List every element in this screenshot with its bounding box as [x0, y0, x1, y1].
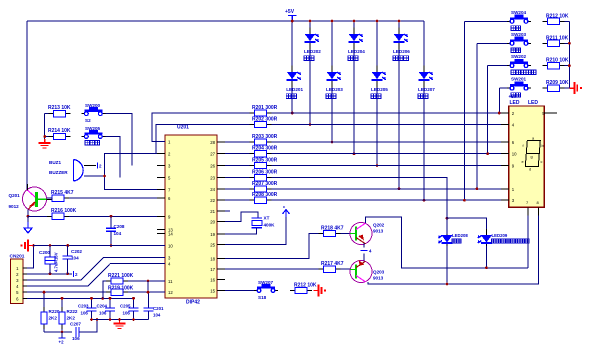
svg-text:LED207: LED207 [418, 87, 435, 92]
junction [147, 291, 150, 294]
svg-text:LED: LED [510, 100, 520, 106]
svg-text:R206 300R: R206 300R [252, 170, 278, 176]
resistor R221 100K [106, 273, 134, 284]
svg-text:22: 22 [210, 198, 215, 203]
svg-text:+2: +2 [59, 340, 65, 345]
crystal XT 400K [252, 216, 276, 228]
wire crosslink [447, 218, 486, 233]
resistor R219 100K [106, 286, 134, 296]
junction top bus x=292.2 [291, 20, 294, 23]
svg-text:R205 300R: R205 300R [252, 158, 278, 164]
junction buzzer node [103, 175, 106, 178]
LED LED209 [478, 229, 530, 251]
wire R202 to display pin4 [271, 124, 509, 126]
LED LED204 [348, 28, 365, 61]
junction R221 left col [101, 297, 104, 300]
svg-text:27: 27 [210, 152, 215, 157]
power +5V [285, 9, 297, 21]
wire R bottoms [44, 329, 72, 332]
wire R208 300R to display [271, 199, 509, 201]
svg-text:SW207: SW207 [258, 280, 274, 285]
wire SW204 to column [464, 20, 507, 22]
svg-text:R222: R222 [67, 309, 78, 314]
wire R201 to display pin2 [271, 112, 509, 114]
LED LED206 [393, 28, 410, 61]
vcc arrow node [225, 204, 290, 244]
LED LED208 [438, 229, 468, 251]
svg-text:U201: U201 [177, 125, 189, 131]
svg-text:R216 100K: R216 100K [51, 208, 77, 214]
junction [49, 272, 52, 275]
ground red left-switches [39, 139, 51, 148]
svg-text:R210 10K: R210 10K [546, 58, 569, 64]
wire R215 to pin6 [69, 197, 165, 199]
wire SW205 out [105, 137, 120, 178]
svg-text:104: 104 [153, 313, 161, 318]
wire R207 300R to display [271, 188, 509, 190]
resistor R222 2K2 [59, 307, 78, 329]
junction top bus x=354 [353, 20, 356, 23]
wire LED column x=292.2 [291, 21, 293, 113]
wire IC to R205 300R [225, 165, 249, 167]
junction top bus x=377 [376, 20, 379, 23]
switch SW205 [81, 126, 105, 145]
svg-text:26: 26 [210, 164, 215, 169]
svg-text:R208 300R: R208 300R [252, 192, 278, 198]
buzzer BUZ1 [49, 160, 102, 182]
wire Q202 emitter [363, 243, 365, 248]
transistor Q201 9012 [9, 184, 53, 211]
resistor R208 300R [249, 192, 277, 203]
svg-text:18: 18 [210, 257, 215, 262]
wire Q203 collector [368, 206, 539, 284]
ground red right [569, 82, 582, 94]
wire column SW201 [498, 88, 500, 113]
junction LED209 bottom [485, 266, 488, 269]
wire left border (Q201 base net) [26, 21, 28, 190]
wire pin15 to SW207 [225, 290, 254, 292]
junction C208 bottom [110, 244, 113, 247]
resistor R212 10K [543, 13, 569, 24]
wire R212 10K right [565, 20, 570, 22]
wire top +5V bus [27, 20, 424, 22]
wire Q202 collector [366, 217, 529, 268]
svg-text:2K2: 2K2 [67, 316, 76, 321]
wire display dig1 pin [527, 206, 529, 268]
svg-text:C208: C208 [114, 224, 125, 229]
junction top bus x=332 [331, 20, 334, 23]
svg-text:9013: 9013 [373, 229, 384, 234]
svg-text:R212 10K: R212 10K [294, 283, 317, 289]
svg-text:R204 300R: R204 300R [252, 146, 278, 152]
op-amp U201 (MCU DIP42) [157, 125, 225, 306]
capacitor C205 106 [120, 298, 139, 319]
svg-text:LED203: LED203 [326, 87, 343, 92]
wire link 11-12 [147, 281, 149, 292]
resistor R212b 10K [290, 283, 317, 294]
svg-text:d: d [529, 168, 531, 172]
wire column SW203 [476, 43, 478, 189]
wire R205 300R to display [271, 165, 509, 167]
resistor R216 100K [47, 208, 77, 220]
wire SW203 to column [477, 42, 507, 44]
svg-text:11: 11 [168, 279, 173, 284]
svg-text:LED206: LED206 [393, 49, 410, 54]
junction column bottom x=377 [376, 164, 379, 167]
junction [90, 318, 93, 321]
tick CN pin2 [74, 271, 79, 277]
wire Q203 emitter [363, 253, 365, 262]
svg-text:S2: S2 [85, 118, 91, 123]
junction [147, 280, 150, 283]
wire Q201 emitter [27, 210, 29, 217]
svg-text:10: 10 [168, 244, 173, 249]
svg-text:XT: XT [264, 216, 270, 221]
LED LED203 [326, 66, 343, 99]
svg-text:C203: C203 [78, 304, 89, 309]
switch SW200 [81, 103, 105, 123]
resistor R205 300R [249, 158, 277, 169]
wire CN pin4 diag [27, 264, 165, 287]
svg-text:e: e [522, 160, 524, 164]
wire LED column x=354 [353, 21, 355, 154]
junction [66, 244, 69, 247]
junction [132, 297, 135, 300]
svg-text:20: 20 [210, 220, 215, 225]
switch SW202 [507, 54, 536, 75]
svg-text:106: 106 [81, 311, 89, 316]
resistor R201 300R [249, 105, 277, 116]
transistor Q203 9013 [350, 260, 385, 283]
svg-text:R215 4K7: R215 4K7 [51, 190, 74, 196]
wire pin1 to R201 [152, 113, 249, 141]
capacitor C208 104 [106, 216, 125, 245]
wire R222 top [61, 298, 63, 307]
svg-text:+5V: +5V [509, 94, 517, 99]
capacitor C203 106 [78, 298, 97, 319]
svg-text:C200: C200 [39, 250, 50, 255]
wire C207 right [79, 320, 97, 333]
LED LED205 [371, 66, 388, 99]
wire pin20 to crystal top [225, 212, 258, 222]
wire R220 top [43, 292, 45, 307]
wire R213/R214 left join [45, 114, 49, 139]
wire LED column x=424 [423, 21, 425, 200]
wire R204 300R to display [271, 153, 509, 155]
LED LED207 [418, 66, 435, 99]
7-segment display LED [501, 94, 557, 215]
svg-text:SW203: SW203 [511, 32, 527, 37]
wire IC to R204 300R [225, 153, 249, 155]
wire R217 row [225, 268, 319, 270]
resistor R202 300R [249, 117, 277, 128]
svg-text:R203 300R: R203 300R [252, 134, 278, 140]
junction LED208 bottom [446, 283, 449, 286]
svg-text:C204: C204 [97, 304, 108, 309]
wire LED208 col upper [446, 178, 448, 234]
svg-text:104: 104 [114, 231, 122, 236]
junction top bus x=399 [398, 20, 401, 23]
wire R218 base route [225, 234, 319, 259]
junction [118, 318, 121, 321]
svg-text:R211 10K: R211 10K [546, 35, 569, 41]
wire CN pin3 diag [27, 258, 165, 280]
svg-text:C202: C202 [71, 249, 82, 254]
svg-text:9013: 9013 [373, 276, 384, 281]
wire R216 to pin9 [69, 215, 165, 217]
junction SW201 column end [498, 112, 501, 115]
svg-text:2K2: 2K2 [49, 316, 58, 321]
wire gnd rail [33, 245, 165, 247]
svg-text:400K: 400K [264, 223, 276, 228]
wire R209 10K right [565, 87, 570, 89]
svg-text:SW205: SW205 [85, 126, 101, 131]
svg-text:14: 14 [168, 232, 173, 237]
svg-text:R219 100K: R219 100K [108, 286, 134, 292]
resistor R210 10K [543, 58, 569, 69]
resistor R207 300R [249, 181, 277, 192]
svg-text:Q203: Q203 [373, 270, 385, 275]
svg-text:C207: C207 [70, 321, 81, 326]
transistor Q202 9013 [350, 223, 385, 245]
svg-text:23: 23 [210, 176, 215, 181]
wire SW201 to column [499, 87, 507, 89]
svg-text:LED205: LED205 [371, 87, 388, 92]
svg-text:R202 300R: R202 300R [252, 117, 278, 123]
resistor R215 4K7 [47, 190, 74, 201]
ground blue Q201 [24, 222, 32, 233]
junction [109, 297, 112, 300]
resistor R213 10K [48, 105, 71, 117]
svg-text:12: 12 [168, 290, 173, 295]
ground red caps [114, 320, 126, 329]
junction [568, 42, 571, 45]
switch SW204 [507, 10, 531, 31]
wire R218 to Q202 base [341, 233, 351, 235]
LED LED201 [286, 66, 303, 99]
wire crystal bottom to pin19 [225, 228, 257, 234]
junction [568, 64, 571, 67]
svg-text:10: 10 [512, 152, 517, 157]
svg-text:Q202: Q202 [373, 223, 385, 228]
svg-text:25: 25 [210, 242, 215, 247]
svg-text:24: 24 [210, 187, 215, 192]
svg-text:b: b [542, 144, 544, 148]
junction [61, 297, 64, 300]
junction SW203 column end [476, 187, 479, 190]
wire LED208 col lower [446, 246, 448, 284]
junction [43, 135, 46, 138]
junction [90, 297, 93, 300]
svg-text:R220: R220 [49, 309, 60, 314]
wire LED column x=332 [331, 21, 333, 142]
junction Q201 emitter [27, 215, 30, 218]
wire IC to R203 300R [225, 141, 249, 143]
tick power 4 [361, 248, 373, 253]
junction SW204 column end [463, 199, 466, 202]
wire R222 stub down [61, 332, 63, 338]
junction column bottom x=424 [423, 199, 426, 202]
wire IC to R207 300R [225, 188, 249, 190]
ground red SW207 [314, 285, 327, 297]
svg-text:R209 10K: R209 10K [546, 80, 569, 86]
capacitor C202 104 [63, 246, 83, 274]
ground red CN area [20, 240, 33, 252]
svg-text:15: 15 [210, 289, 215, 294]
svg-text:R221 100K: R221 100K [108, 273, 134, 279]
wire LED column x=310 [309, 21, 311, 125]
svg-text:4.7uF/16V: 4.7uF/16V [54, 252, 59, 272]
svg-text:R201 300R: R201 300R [252, 105, 278, 111]
svg-text:R218 4K7: R218 4K7 [321, 226, 344, 232]
wire R206 row to LED208 col [271, 178, 447, 284]
svg-text:LED: LED [528, 100, 538, 106]
wire emitter node [28, 216, 47, 222]
capacitor C207 106 [70, 321, 81, 341]
wire buzzer out to pin7 [84, 176, 165, 189]
junction [132, 318, 135, 321]
junction [49, 244, 52, 247]
wire R210 10K right [565, 65, 570, 67]
wire LED column x=377 [376, 21, 378, 166]
svg-text:R217 4K7: R217 4K7 [321, 261, 344, 267]
svg-text:17: 17 [210, 267, 215, 272]
wire R211 10K right [565, 42, 570, 44]
resistor R204 300R [249, 146, 277, 157]
tick bottom [59, 338, 66, 345]
wire CN pin5 row (pin12 net) [27, 291, 165, 293]
svg-text:C201: C201 [153, 306, 164, 311]
svg-text:104: 104 [71, 256, 79, 261]
capacitor C200 4u7 [39, 246, 59, 274]
resistor R211 10K [543, 35, 569, 46]
svg-text:SW200: SW200 [85, 103, 101, 108]
wire R203 300R to display [271, 141, 509, 143]
resistor R220 2K2 [41, 307, 60, 329]
svg-text:+5V: +5V [285, 9, 295, 15]
svg-text:R213 10K: R213 10K [48, 105, 71, 111]
svg-text:16: 16 [210, 278, 215, 283]
junction LED crosslink [446, 217, 449, 220]
svg-text:R212 10K: R212 10K [546, 13, 569, 19]
svg-text:21: 21 [210, 209, 215, 214]
junction C208 top [110, 215, 113, 218]
svg-text:C205: C205 [120, 304, 131, 309]
junction column bottom x=332 [331, 141, 334, 144]
resistor R209 10K [543, 80, 569, 91]
junction column bottom x=354 [353, 152, 356, 155]
wire LED column x=399 [398, 21, 400, 189]
svg-text:CN201: CN201 [10, 254, 25, 260]
wire caps bottom rail [92, 319, 149, 321]
svg-text:SW201: SW201 [511, 77, 527, 82]
junction [96, 318, 99, 321]
svg-text:106: 106 [72, 336, 80, 341]
svg-text:R214 10K: R214 10K [48, 128, 71, 134]
switch SW207 [254, 280, 278, 300]
wire Q201 coll to R215 [47, 198, 52, 199]
junction column bottom x=292.2 [291, 112, 294, 115]
junction [66, 272, 69, 275]
svg-text:DIP42: DIP42 [186, 300, 200, 306]
svg-text:28: 28 [210, 140, 215, 145]
svg-text:LED209: LED209 [492, 233, 508, 238]
resistor R203 300R [249, 134, 277, 145]
svg-text:LED201: LED201 [286, 87, 303, 92]
svg-text:BUZ1: BUZ1 [49, 160, 61, 165]
svg-text:S18: S18 [258, 295, 267, 300]
wire CN pin6 row (caps rail) [27, 297, 134, 299]
connector CN201 [10, 254, 28, 304]
wire column SW204 [463, 21, 465, 200]
junction top bus x=310 [309, 20, 312, 23]
svg-text:BUZZER: BUZZER [49, 170, 68, 175]
junction [61, 331, 64, 334]
svg-text:SW204: SW204 [511, 10, 527, 15]
resistor R217 4K7 [319, 261, 344, 272]
wire R221 left [103, 281, 106, 298]
wire CN pin1 [27, 246, 34, 268]
svg-text:9012: 9012 [9, 204, 20, 209]
junction SW202 column end [486, 152, 489, 155]
capacitor C201 104 [144, 292, 165, 319]
junction [43, 291, 46, 294]
switch SW203 [507, 32, 531, 53]
junction column bottom x=310 [309, 123, 312, 126]
wire LED209 col lower [485, 246, 487, 268]
wire R217 to Q203 base [341, 268, 351, 270]
wire R221 right [128, 280, 165, 282]
svg-text:Q201: Q201 [9, 193, 21, 198]
LED LED202 [304, 28, 321, 61]
svg-text:19: 19 [210, 232, 215, 237]
svg-text:106: 106 [123, 311, 131, 316]
svg-text:c: c [541, 160, 543, 164]
wire IC to R208 300R [225, 199, 249, 201]
junction [109, 318, 112, 321]
resistor R214 10K [48, 128, 71, 140]
junction [32, 244, 35, 247]
svg-text:106: 106 [99, 311, 107, 316]
capacitor C204 106 [97, 298, 116, 319]
resistor R206 300R [249, 170, 277, 181]
wire pin21 stub [225, 210, 230, 212]
svg-text:SW202: SW202 [511, 54, 527, 59]
resistor R218 4K7 [319, 226, 344, 237]
svg-text:R207 300R: R207 300R [252, 181, 278, 187]
wire right resistor bus [568, 21, 570, 88]
svg-text:g: g [531, 155, 533, 159]
svg-text:LED204: LED204 [348, 49, 365, 54]
wire SW202 to column [488, 65, 507, 67]
junction column bottom x=399 [398, 187, 401, 190]
switch SW201 [507, 77, 531, 98]
wire column SW202 [487, 66, 489, 154]
svg-text:LED202: LED202 [304, 49, 321, 54]
wire IC to R206 300R [225, 177, 249, 179]
wire CN pin2 row [27, 273, 72, 275]
svg-text:LED208: LED208 [452, 233, 468, 238]
wire pin2 jog to R202 [156, 125, 249, 154]
wire SW200 out [105, 114, 132, 166]
wire pin2 long [105, 153, 166, 176]
